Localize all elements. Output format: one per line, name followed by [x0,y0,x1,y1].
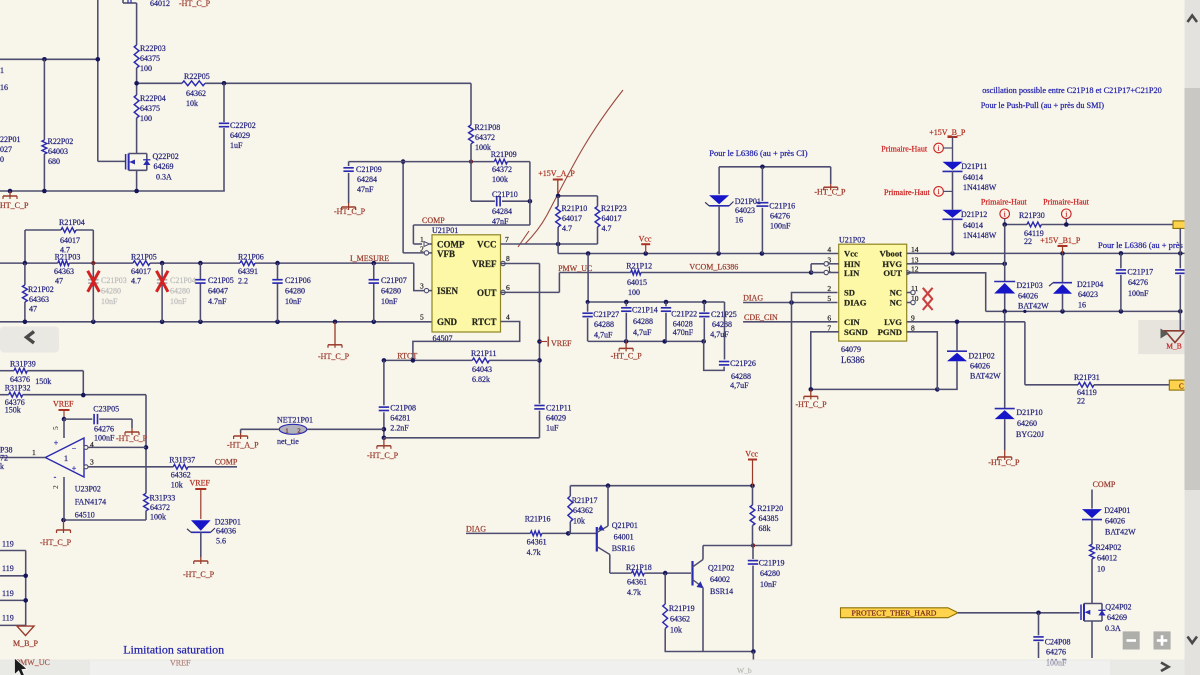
net flag M_B [1161,329,1186,351]
svg-text:100k: 100k [150,513,166,522]
resistor R21P17 [568,486,598,534]
net flag Primaire-Haut 2 [884,187,953,197]
red X over C21P03 [88,271,100,292]
resistor R21P04 [25,218,93,263]
svg-text:64372: 64372 [492,165,512,174]
svg-text:Primaire-Haut: Primaire-Haut [981,198,1028,207]
svg-text:C21P26: C21P26 [730,359,756,368]
svg-text:R21P11: R21P11 [471,349,497,358]
wire Vcc rail y=253.5 [558,244,839,256]
svg-text:64269: 64269 [154,162,174,171]
svg-text:C21P16: C21P16 [769,202,795,211]
resistor R21P11 [471,349,497,384]
svg-text:C21P11: C21P11 [546,404,572,413]
svg-text:64375: 64375 [140,104,160,113]
power +15V_B1_P [1040,236,1081,253]
svg-text:64079: 64079 [841,345,861,354]
svg-text:C21P27: C21P27 [593,310,619,319]
svg-text:Vboot: Vboot [880,248,903,258]
ground -HT_C_P (C21P08) [367,438,399,460]
svg-text:64003: 64003 [48,147,68,156]
svg-text:5: 5 [420,313,424,322]
power VREF (D23P01) [190,479,211,520]
svg-text:BAT42W: BAT42W [1105,528,1136,537]
capacitor C21P07 [369,263,407,322]
wire Primaire-Haut vertical [1004,225,1006,282]
svg-text:VREF: VREF [190,479,211,488]
svg-text:47: 47 [29,305,37,314]
svg-text:Vcc: Vcc [745,450,758,459]
svg-text:22: 22 [1024,237,1032,246]
wire inverting input pin4 [88,446,146,448]
net flag Primaire-Haut 4 [1043,198,1090,225]
svg-text:64012: 64012 [1097,554,1117,563]
svg-text:R21P20: R21P20 [757,504,783,513]
right scrollbar track [1185,0,1200,675]
capacitor C21P14 [621,302,658,341]
svg-text:-HT_C_P: -HT_C_P [183,570,215,579]
svg-text:VCC: VCC [477,240,497,250]
resistor R31P32 [0,384,146,415]
svg-text:Limitation saturation: Limitation saturation [123,643,224,657]
op-amp labels [75,485,106,520]
svg-text:64362: 64362 [186,89,206,98]
resistor R21P30 [1002,211,1173,246]
svg-text:LVG: LVG [884,317,902,327]
svg-text:64017: 64017 [602,214,622,223]
svg-text:NC: NC [890,288,902,298]
svg-text:64012: 64012 [150,0,170,8]
svg-text:R22P03: R22P03 [140,44,166,53]
svg-text:i: i [938,188,940,196]
svg-text:64362: 64362 [171,471,191,480]
svg-text:1: 1 [420,235,424,244]
bottom-right scroll arrow [1161,663,1169,672]
svg-text:VFB: VFB [437,249,455,259]
svg-text:C24P08: C24P08 [1045,638,1071,647]
resistor R21P23 [595,196,627,244]
connector flag CMD (right edge) [1169,380,1186,390]
red X over C21P04 [156,271,168,292]
svg-text:100nF: 100nF [770,222,791,231]
svg-text:1: 1 [285,427,288,434]
svg-text:Pour le L6386 (au + près (: Pour le L6386 (au + près ( [1098,240,1188,250]
diode D21P12 [943,210,997,254]
svg-text:C21P08: C21P08 [390,404,416,413]
svg-text:64288: 64288 [594,320,614,329]
svg-text:64281: 64281 [390,414,410,423]
svg-text:2.2: 2.2 [238,277,248,286]
svg-text:RTCT: RTCT [397,352,417,361]
ground -HT_C_P (gnd bus) [318,322,350,361]
svg-text:C21P04: C21P04 [170,276,196,285]
diode D21P02 [937,322,1001,389]
wire PGND rail [809,387,940,392]
svg-text:64276: 64276 [94,425,114,434]
capacitor C21P22 [661,302,697,341]
svg-text:BAT42W: BAT42W [1018,302,1049,311]
capacitor C21P25 [699,302,737,341]
svg-text:-HT_C_P: -HT_C_P [179,0,211,8]
ground -HT_C_P (left bus) [0,191,29,210]
wire I_MESURE bus y=263 [0,261,414,266]
svg-text:R21P04: R21P04 [59,218,85,227]
svg-text:64023: 64023 [735,206,755,215]
svg-text:47: 47 [55,277,63,286]
svg-text:1N4148W: 1N4148W [963,183,997,192]
svg-text:10k: 10k [171,481,183,490]
svg-text:64026: 64026 [970,362,990,371]
svg-text:R21P08: R21P08 [475,123,501,132]
svg-text:6: 6 [827,313,831,322]
zoom out button [1123,631,1140,649]
svg-text:64036: 64036 [216,527,236,536]
capacitor C23P05 [64,405,132,443]
svg-text:R21P10: R21P10 [562,204,588,213]
svg-text:R21P02: R21P02 [28,285,54,294]
resistor R21P02 [23,263,54,322]
text fragment C22P01 at left edge [0,135,20,164]
svg-text:oscillation possible entre C21: oscillation possible entre C21P18 et C21… [982,86,1162,95]
wire CDE_CIN [743,321,837,323]
svg-text:Primaire-Haut: Primaire-Haut [881,145,928,154]
svg-text:1: 1 [0,66,4,75]
op-amp U23P02 [0,419,94,520]
wire VCC pin7 rail [501,242,598,247]
svg-text:64017: 64017 [131,267,151,276]
svg-text:-: - [54,473,57,482]
svg-text:Vcc: Vcc [844,248,858,258]
svg-text:−: − [72,444,77,453]
wire D21P01/C21P16 top [719,165,831,185]
svg-text:64269: 64269 [1107,613,1127,622]
svg-text:COMP: COMP [215,458,238,467]
net flag Primaire-Haut 1 [881,143,952,153]
transistor Q22P01 (partial, cut at top) [123,0,211,8]
ground -HT_C_P (D23P01) [183,557,215,579]
svg-text:64276: 64276 [1046,648,1066,657]
svg-text:4,7uF: 4,7uF [730,381,749,390]
svg-text:2: 2 [51,485,60,489]
svg-text:1N4148W: 1N4148W [963,231,997,240]
svg-text:64047: 64047 [208,287,228,296]
svg-text:119: 119 [2,540,14,549]
wire RTCT pin4 path [413,322,520,361]
svg-text:BSR14: BSR14 [710,587,733,596]
wire VREF branch [501,264,542,404]
svg-text:R21P19: R21P19 [669,604,695,613]
bottom scrollbar band [0,660,1200,675]
svg-text:OUT: OUT [883,268,902,278]
svg-text:8: 8 [506,254,510,263]
capacitor C21P16 [756,167,795,254]
svg-text:4.7: 4.7 [562,224,572,233]
wire pin3 to COMP [88,466,237,468]
net flag PROTECT_THER_HARD [841,608,959,618]
svg-text:i: i [1065,210,1067,218]
wire R22P03 to node [136,68,138,83]
svg-text:10k: 10k [186,99,198,108]
svg-text:COMP: COMP [1093,480,1116,489]
IC U21P01 (UC3843) [420,226,510,343]
label VREF tick [540,337,573,349]
svg-text:BAT42W: BAT42W [970,372,1001,381]
ground -HT_C_P (C23P05) [116,428,148,443]
svg-text:GND: GND [437,317,458,327]
wire R21P31 branch [1024,322,1026,385]
svg-text:OUT: OUT [477,288,497,298]
svg-text:PMW_UC: PMW_UC [558,264,592,273]
svg-text:22P01: 22P01 [0,135,20,144]
svg-text:64375: 64375 [140,54,160,63]
text fragments left edge (R31P38) [0,446,12,472]
svg-text:5.6: 5.6 [216,537,226,546]
svg-text:64029: 64029 [230,131,250,140]
capacitor C21P06 [272,263,310,322]
svg-text:C22P02: C22P02 [230,121,256,130]
svg-text:CDE_CIN: CDE_CIN [744,313,778,322]
svg-text:R21P17: R21P17 [572,496,598,505]
diode D21P01 (zener) [705,167,761,254]
svg-text:D23P01: D23P01 [215,518,241,527]
svg-text:4.7k: 4.7k [527,548,541,557]
svg-text:100nF: 100nF [1046,659,1067,668]
svg-text:64280: 64280 [101,287,121,296]
svg-text:PGND: PGND [878,327,902,337]
resistor R24P02 [1090,520,1122,601]
svg-text:64280: 64280 [170,287,190,296]
svg-text:R21P23: R21P23 [601,204,627,213]
svg-text:64015: 64015 [627,278,647,287]
svg-text:U21P02: U21P02 [839,236,865,245]
svg-text:I_MESURE: I_MESURE [350,254,389,263]
svg-text:U21P01: U21P01 [432,226,458,235]
svg-text:2: 2 [420,245,424,254]
svg-text:64362: 64362 [670,615,690,624]
resistor R21P05 [131,253,157,286]
ground -HT_A_P [227,433,259,450]
wire SD jog [792,293,838,303]
mouse cursor [15,658,28,675]
wire Vboot rail [907,251,1185,256]
svg-text:119: 119 [2,614,14,623]
svg-text:Q24P02: Q24P02 [1105,603,1131,612]
svg-text:R24P02: R24P02 [1096,543,1122,552]
svg-text:U23P02: U23P02 [75,485,101,494]
svg-text:150k: 150k [35,377,51,386]
svg-text:Primaire-Haut: Primaire-Haut [1043,198,1090,207]
capacitor C21P27 [582,302,619,341]
svg-text:C21P22: C21P22 [671,310,697,319]
svg-text:7: 7 [505,235,509,244]
svg-text:R22P02: R22P02 [48,137,74,146]
svg-text:4: 4 [506,313,510,322]
capacitor C21P04 (deleted, crossed out) [157,263,196,322]
svg-text:027: 027 [0,145,12,154]
svg-text:6: 6 [506,283,510,292]
svg-text:5: 5 [827,294,831,303]
svg-text:64001: 64001 [614,533,634,542]
svg-text:1: 1 [64,453,68,463]
svg-text:100k: 100k [492,175,508,184]
wire HIN/LIN entry [811,264,824,273]
capacitor C21P10 [471,162,532,226]
svg-text:Pour le Push-Pull (au + près d: Pour le Push-Pull (au + près du SMI) [981,101,1105,110]
diode D21P11 [943,162,997,210]
svg-text:10nF: 10nF [760,580,777,589]
text oscillation note [981,86,1162,110]
wire HVG net [907,262,1007,267]
svg-text:-HT_C_P: -HT_C_P [318,352,350,361]
wire COMP (U21P01) [413,162,530,244]
svg-text:119: 119 [2,564,14,573]
resistor R21P06 [238,253,264,286]
diode D21P03 [994,281,1049,311]
svg-text:64362: 64362 [573,506,593,515]
svg-text:SD: SD [844,288,855,298]
svg-text:9: 9 [911,313,915,322]
svg-text:R21P31: R21P31 [1074,373,1100,382]
svg-text:-HT_C_P: -HT_C_P [988,458,1020,467]
svg-text:10k: 10k [670,626,682,635]
svg-text:4.7nF: 4.7nF [208,297,227,306]
wire HT bus y=191 [0,189,225,194]
svg-text:C21P10: C21P10 [492,190,518,199]
resistor R22P02 [42,59,73,191]
svg-text:64014: 64014 [963,221,983,230]
svg-text:-HT_C_P: -HT_C_P [611,352,643,361]
svg-text:4.7k: 4.7k [627,588,641,597]
resistor R21P08 [469,83,501,161]
svg-text:C21P03: C21P03 [101,276,127,285]
wire PGND stub [907,332,938,390]
svg-text:10nF: 10nF [101,297,118,306]
net flag Primaire-Haut 3 [981,198,1028,225]
wire emitter gnd rail [665,649,756,661]
wire cap bank bottom rail [588,339,706,344]
capacitor C21P19 [748,546,785,652]
svg-text:-HT_C_P: -HT_C_P [367,451,399,460]
ground -HT_C_P (op-amp) [40,520,72,547]
svg-text:-HT_C_P: -HT_C_P [40,538,72,547]
text fragments 1 / 16 at left edge [0,66,8,92]
svg-text:R21P18: R21P18 [626,563,652,572]
svg-text:C21P05: C21P05 [208,276,234,285]
wire PROTECT net [958,611,1080,616]
svg-text:64363: 64363 [29,295,49,304]
svg-text:64391: 64391 [238,267,258,276]
svg-text:4,7uF: 4,7uF [633,328,652,337]
power Vcc (bottom) [745,450,758,486]
wire SD/DIAG long vertical [791,303,793,546]
svg-text:BYG20J: BYG20J [1016,430,1044,439]
svg-text:-HT_C_P: -HT_C_P [814,188,846,197]
wire top-left gate net [0,0,126,161]
resistor R31P39 [0,360,83,396]
capacitor C21P08 [379,360,416,440]
resistor R31P33 [144,493,176,521]
svg-text:2: 2 [297,427,300,434]
svg-text:8: 8 [911,323,915,332]
svg-text:4,7uF: 4,7uF [710,330,729,339]
wire RTCT net [382,358,540,363]
svg-text:150k: 150k [5,406,21,415]
power Vcc flag [639,235,652,254]
svg-text:22: 22 [1077,397,1085,406]
svg-text:2.2nF: 2.2nF [390,424,409,433]
svg-text:64280: 64280 [381,287,401,296]
svg-text:6.82k: 6.82k [472,375,490,384]
svg-text:D21P03: D21P03 [1017,281,1043,290]
svg-text:64002: 64002 [710,575,730,584]
svg-text:D21P11: D21P11 [961,162,987,171]
ground -HT_C_P (SGND) [796,389,828,409]
svg-text:16: 16 [735,216,743,225]
wire Vcc rail (bottom) [570,483,755,488]
svg-text:R22P05: R22P05 [184,72,210,81]
svg-text:FAN4174: FAN4174 [75,498,106,507]
svg-text:M_B: M_B [1166,342,1181,351]
wire OUT (pin12) to rail [907,273,986,312]
svg-text:R22P04: R22P04 [140,94,166,103]
svg-text:+: + [72,464,77,473]
svg-text:64372: 64372 [475,133,495,142]
svg-text:VREF: VREF [170,659,191,668]
capacitor C21P03 (deleted, crossed out) [88,263,127,322]
svg-text:VREF: VREF [551,339,572,348]
svg-text:10: 10 [1097,565,1105,574]
svg-text:3: 3 [420,282,424,291]
svg-text:64361: 64361 [527,538,547,547]
svg-text:LIN: LIN [844,268,860,278]
svg-text:R31P39: R31P39 [10,360,36,369]
svg-text:+15V_B_P: +15V_B_P [929,128,966,137]
svg-text:-HT_C_P: -HT_C_P [796,400,828,409]
svg-text:R21P09: R21P09 [491,150,517,159]
wire VFB node y=161.6 [349,160,530,164]
svg-text:100nF: 100nF [1128,289,1149,298]
svg-text:k: k [0,462,4,471]
svg-text:COMP: COMP [422,216,445,225]
svg-text:R21P12: R21P12 [626,262,652,271]
svg-text:64026: 64026 [1105,517,1125,526]
op-amp feedback wire VFB vertical [401,159,424,253]
svg-text:PROTECT_THER_HARD: PROTECT_THER_HARD [852,609,937,618]
svg-text:10nF: 10nF [381,297,398,306]
wire to M_B flag [1179,311,1181,331]
capacitor C21P26 [704,302,756,390]
svg-text:R21P06: R21P06 [238,253,264,262]
diode D21P04 (zener) [1049,253,1103,311]
svg-text:RTCT: RTCT [472,317,497,327]
svg-text:47nF: 47nF [357,185,374,194]
svg-text:DIAG: DIAG [844,298,867,308]
svg-text:64017: 64017 [562,214,582,223]
svg-text:100: 100 [628,288,640,297]
power VREF (op-amp) [53,400,74,422]
wire LVG net [907,320,1025,325]
svg-text:0.3A: 0.3A [1105,624,1121,633]
svg-text:Pour le L6386 (au + près CI): Pour le L6386 (au + près CI) [709,148,807,158]
svg-text:64385: 64385 [759,514,779,523]
svg-text:C21P07: C21P07 [381,276,407,285]
svg-text:net_tie: net_tie [277,437,299,446]
resistor R21P03 [54,253,80,286]
wire DIAG net [743,300,837,305]
svg-text:64280: 64280 [285,287,305,296]
svg-text:64288: 64288 [712,320,732,329]
svg-text:i: i [938,145,940,153]
